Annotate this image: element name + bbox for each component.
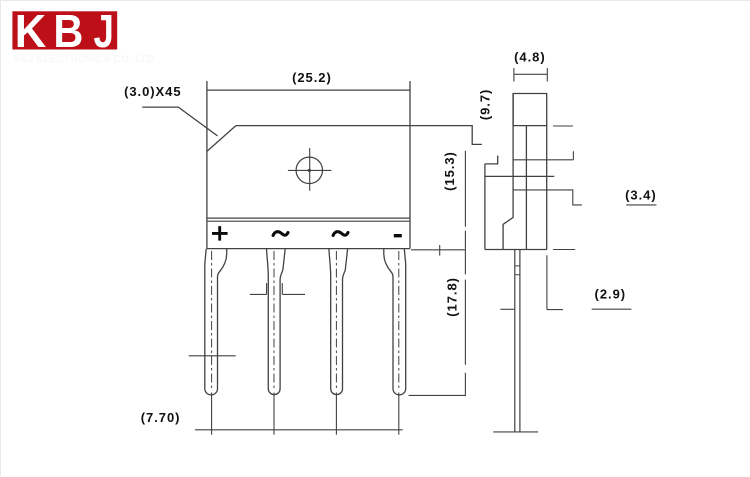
underline of (3.4) bbox=[626, 204, 656, 206]
dimension line (7.70) bbox=[195, 429, 403, 431]
hole crosshair bbox=[288, 148, 332, 191]
svg-text:(3.0)X45: (3.0)X45 bbox=[124, 84, 181, 99]
svg-text:(7.70): (7.70) bbox=[141, 410, 181, 425]
line crossing tab at front body top level bbox=[513, 125, 547, 127]
lead 2 centerline bbox=[273, 251, 275, 391]
strip bottom extension line bbox=[411, 249, 466, 251]
pin crimp ticks bbox=[515, 266, 520, 275]
side view horizontal feature line bbox=[485, 175, 554, 177]
svg-text:K: K bbox=[15, 5, 47, 57]
front view: left extension + body left edge bbox=[206, 81, 208, 249]
lead 2 left measure tick bbox=[250, 283, 267, 294]
terminal strip double line bbox=[207, 218, 410, 221]
svg-text:(25.2): (25.2) bbox=[292, 70, 332, 85]
logo KBJ red box bbox=[12, 5, 117, 57]
dimension (15.3) line bbox=[464, 151, 466, 250]
tick on strip bottom extension bbox=[439, 245, 441, 256]
svg-text:(15.3): (15.3) bbox=[442, 151, 457, 191]
lead 2 right measure tick bbox=[282, 283, 305, 294]
pin tip extension line bbox=[493, 431, 538, 433]
svg-text:(2.9): (2.9) bbox=[595, 286, 626, 301]
lead 4 outline (mirror of lead 1) bbox=[384, 249, 406, 395]
bottom extension segment bbox=[553, 249, 575, 251]
lead 1 outline bbox=[205, 249, 227, 395]
lead 1 centerline bbox=[211, 251, 213, 391]
plus symbol bbox=[212, 226, 228, 241]
side view body left edge bbox=[484, 164, 486, 250]
terminal strip bottom edge bbox=[207, 248, 410, 250]
svg-text:(9.7): (9.7) bbox=[477, 89, 492, 120]
svg-text:(4.8): (4.8) bbox=[514, 50, 545, 65]
svg-text:KBJ ELECTRONICS CO.,LTD: KBJ ELECTRONICS CO.,LTD bbox=[13, 54, 154, 65]
tilde symbol 1 bbox=[273, 232, 288, 236]
side view tab outline bbox=[513, 94, 547, 250]
dimension line (25.2) bbox=[207, 89, 410, 91]
tilde symbol 2 bbox=[333, 232, 348, 236]
svg-text:(17.8): (17.8) bbox=[445, 277, 460, 317]
side view inner vertical line bbox=[525, 126, 527, 250]
lead tip extension line bbox=[409, 394, 466, 396]
lead 3 outline bbox=[329, 249, 348, 395]
extension segment right of tab at body top level bbox=[553, 125, 573, 127]
dimension (4.8) line with ticks bbox=[514, 68, 547, 82]
dimension (17.8) line bbox=[464, 250, 466, 396]
svg-text:J: J bbox=[94, 5, 114, 57]
leader line for (3.0)X45 bbox=[142, 107, 217, 136]
lead 3 centerline bbox=[335, 251, 337, 391]
extension jog for (3.4) bbox=[513, 190, 582, 205]
side view pin bbox=[515, 250, 520, 432]
side view body bottom edge bbox=[485, 249, 547, 251]
side view tab left edge with bend bbox=[503, 94, 513, 250]
lead 4 centerline bbox=[398, 251, 400, 391]
svg-text:B: B bbox=[53, 5, 83, 57]
lead 2 outline bbox=[267, 249, 286, 395]
underline of (2.9) bbox=[592, 308, 632, 310]
front view: right extension + body right edge bbox=[409, 81, 411, 249]
dimension (7.70) extension lines from lead centers bbox=[212, 393, 399, 435]
svg-text:(3.4): (3.4) bbox=[625, 188, 656, 203]
mounting hole circle bbox=[296, 157, 322, 183]
tick crossing lead 1 bbox=[189, 355, 236, 357]
side view body top-left step bbox=[485, 156, 498, 164]
dimension (2.9) vertical bbox=[547, 255, 563, 309]
front body top edge + extension to side view jog bbox=[236, 126, 482, 145]
tick left of pin for (2.9) bbox=[500, 308, 515, 310]
minus symbol bbox=[394, 234, 402, 237]
extension line with up tick bbox=[513, 151, 573, 160]
chamfer corner bbox=[207, 126, 236, 152]
